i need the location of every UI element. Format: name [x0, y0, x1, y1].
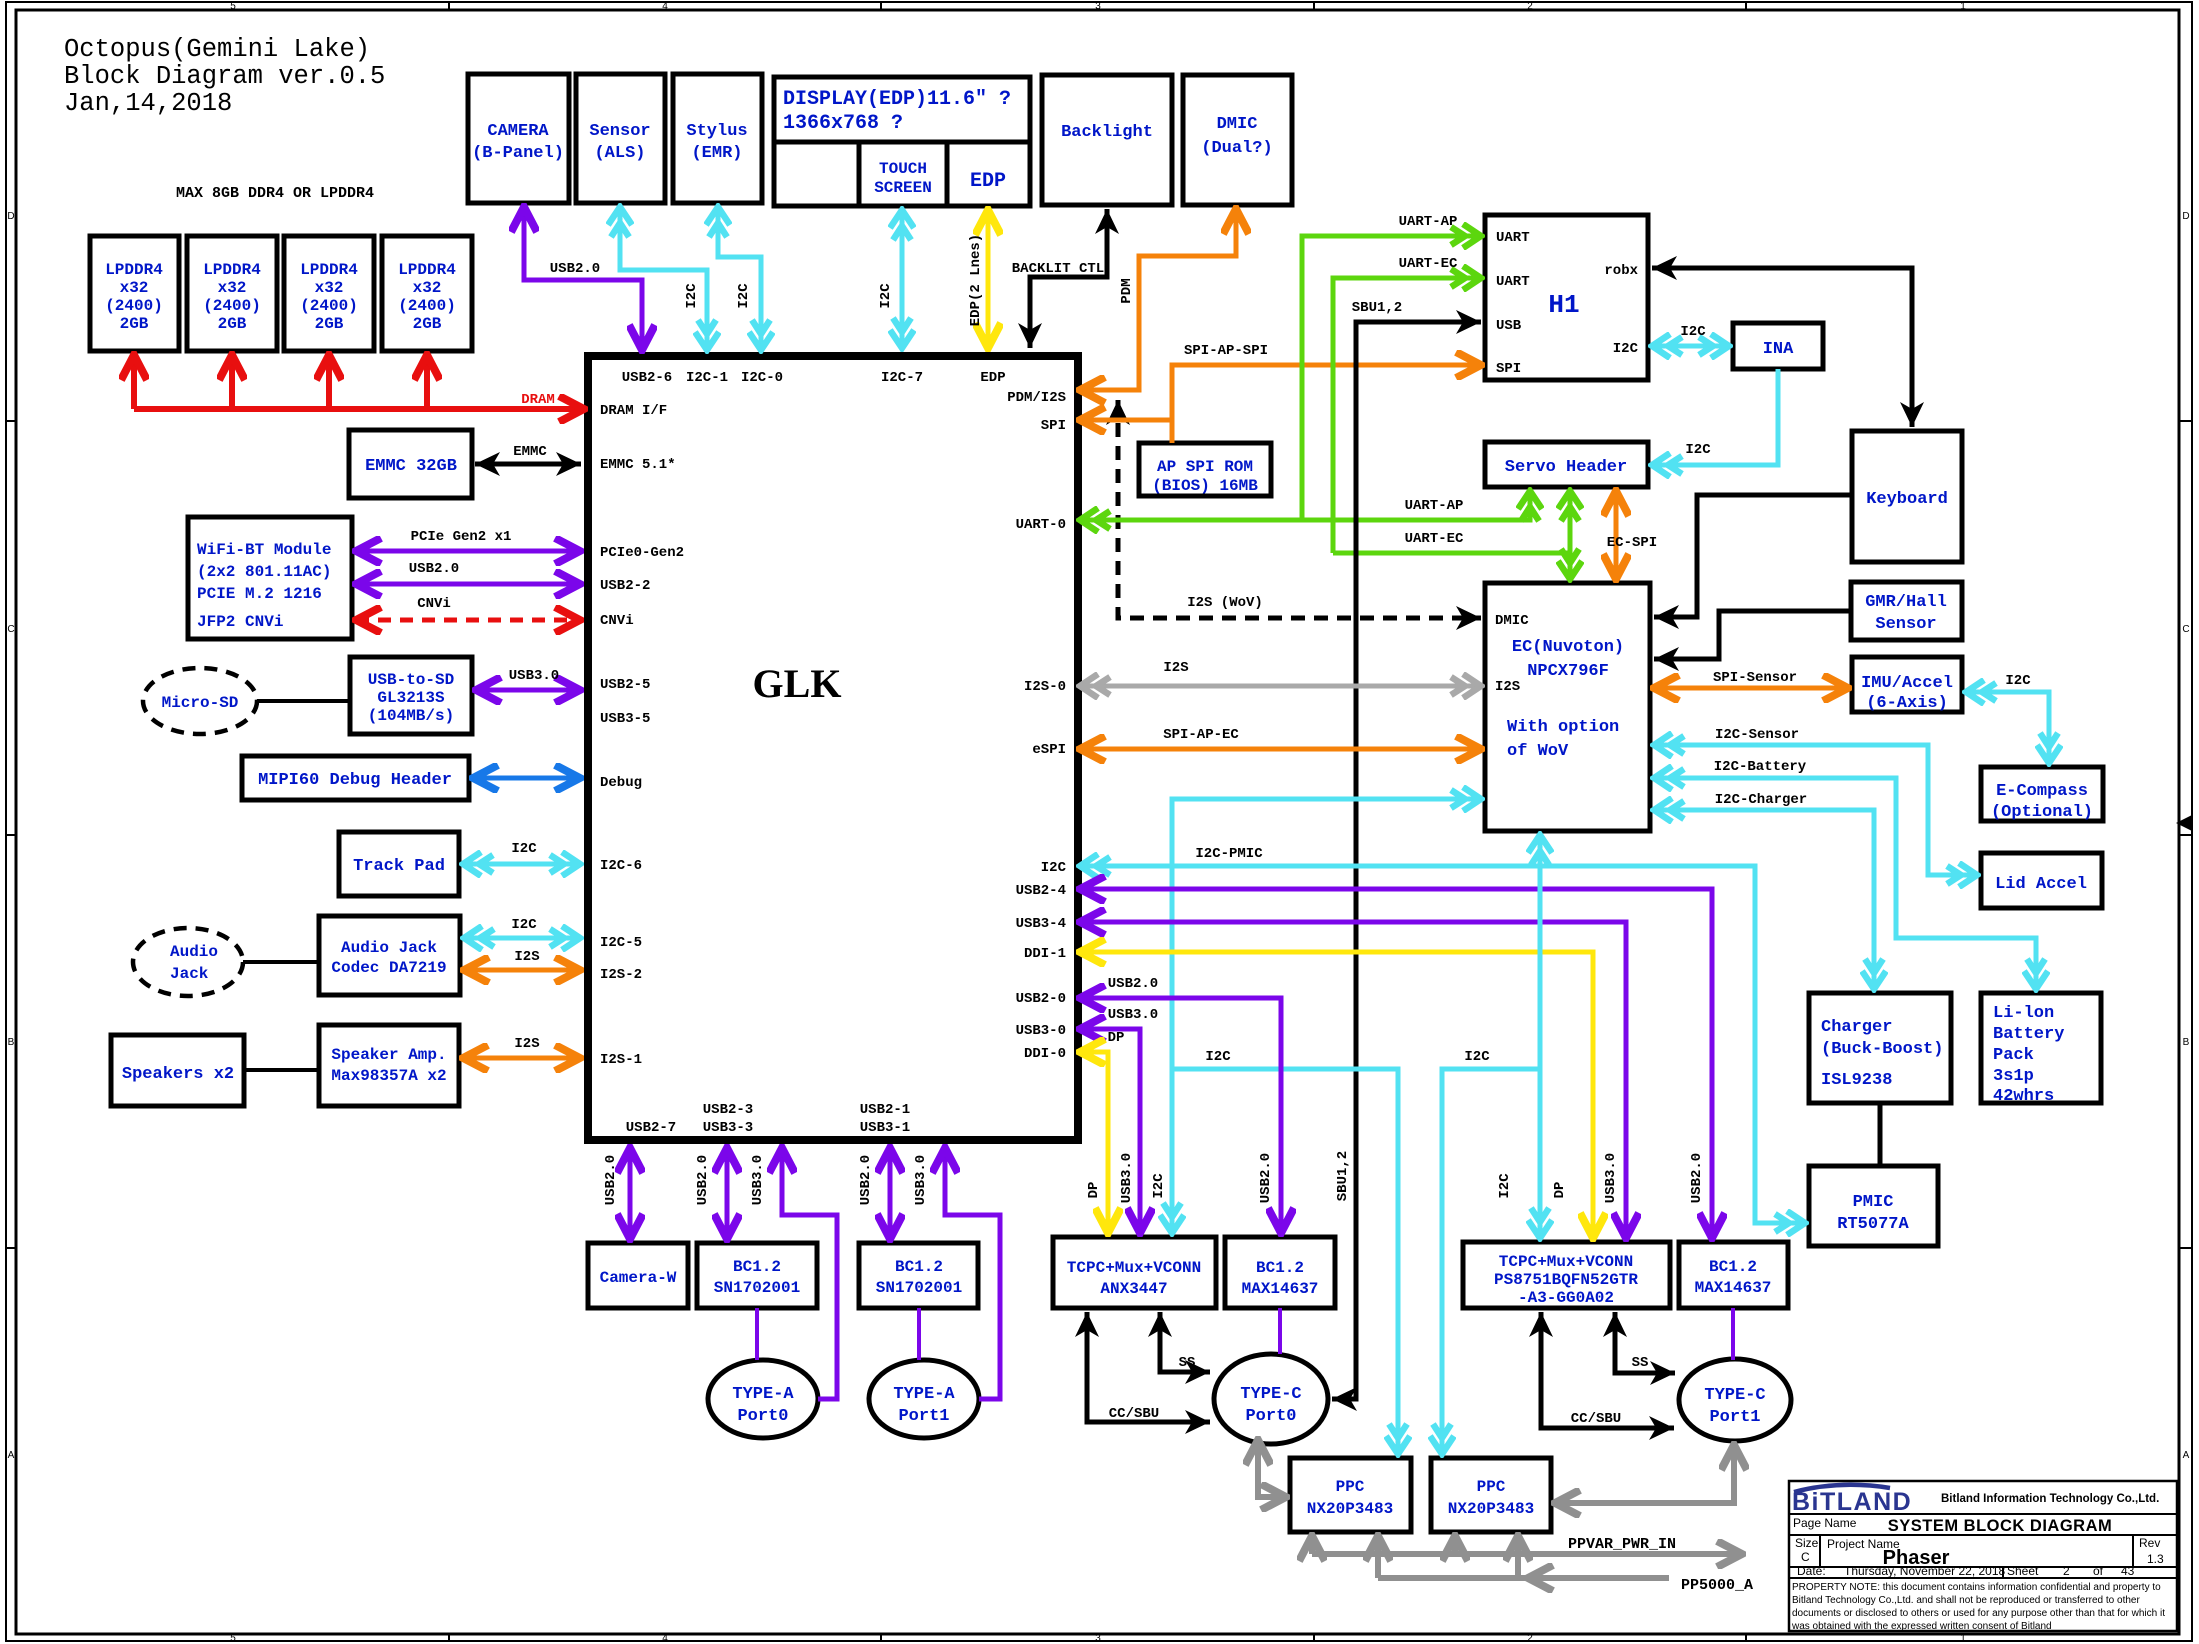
svg-text:PPVAR_PWR_IN: PPVAR_PWR_IN	[1568, 1536, 1676, 1553]
svg-text:Page Name: Page Name	[1793, 1516, 1857, 1530]
wire PDM orange	[1080, 209, 1236, 390]
wire UART-EC run to EC vertical	[1333, 551, 1570, 556]
svg-text:2GB: 2GB	[218, 315, 247, 333]
svg-text:SPI-AP-SPI: SPI-AP-SPI	[1184, 343, 1268, 359]
svg-text:1: 1	[1960, 1633, 1966, 1644]
connector Audio Jack (dashed ellipse)	[133, 928, 243, 996]
svg-text:UART: UART	[1496, 274, 1530, 290]
wire USB2-6 camera purple	[524, 207, 642, 350]
connector Micro-SD (dashed ellipse)	[143, 668, 257, 734]
wire PCIe Gen2 x1 purple	[356, 549, 580, 554]
svg-text:A: A	[8, 1450, 15, 1461]
svg-text:SBU1,2: SBU1,2	[1335, 1151, 1351, 1201]
svg-text:UART-AP: UART-AP	[1405, 498, 1464, 514]
svg-text:2GB: 2GB	[315, 315, 344, 333]
svg-text:E-Compass: E-Compass	[1996, 782, 2088, 801]
svg-text:UART-EC: UART-EC	[1399, 256, 1458, 272]
wire I2C H1-INA cyan	[1652, 344, 1729, 349]
chip H1	[1485, 215, 1648, 380]
svg-text:x32: x32	[120, 279, 149, 297]
wire Keyboard to EC black	[1654, 495, 1852, 617]
svg-text:I2C-5: I2C-5	[600, 935, 642, 951]
wire CC/SBU PS8751 to TYPE-C Port1 black	[1541, 1312, 1674, 1428]
svg-text:Micro-SD: Micro-SD	[162, 694, 239, 712]
svg-text:I2S: I2S	[1163, 660, 1188, 676]
svg-text:EDP: EDP	[980, 370, 1005, 386]
svg-text:BiTLAND: BiTLAND	[1792, 1488, 1912, 1516]
svg-text:USB2-6: USB2-6	[622, 370, 672, 386]
svg-text:I2C: I2C	[1497, 1173, 1513, 1199]
wire I2C-Sensor cyan EC to Lid Accel	[1654, 745, 1977, 875]
wire DRAM riser to LPDDR4 #4	[424, 355, 430, 409]
svg-text:DP: DP	[1086, 1182, 1102, 1199]
svg-text:(EMR): (EMR)	[691, 144, 742, 163]
block CAMERA (B-Panel)	[468, 74, 569, 203]
wire PPVAR riser to PPC#2	[1452, 1536, 1458, 1554]
svg-text:I2S (WoV): I2S (WoV)	[1187, 595, 1263, 611]
svg-text:I2S-1: I2S-1	[600, 1052, 642, 1068]
svg-text:1: 1	[1960, 1, 1966, 12]
svg-text:DRAM I/F: DRAM I/F	[600, 403, 667, 419]
svg-text:USB2-0: USB2-0	[1016, 991, 1066, 1007]
GLK pin labels right side	[1007, 390, 1066, 1062]
svg-text:x32: x32	[315, 279, 344, 297]
svg-text:I2C-Charger: I2C-Charger	[1715, 792, 1807, 808]
svg-text:(BIOS) 16MB: (BIOS) 16MB	[1152, 477, 1258, 495]
wire PP5000 riser to PPC#2	[1515, 1536, 1521, 1578]
wire EDP yellow	[986, 210, 991, 348]
svg-text:USB2.0: USB2.0	[1258, 1153, 1274, 1203]
block BC1.2 MAX14637 #1	[1225, 1237, 1335, 1308]
svg-text:of WoV: of WoV	[1507, 742, 1569, 761]
wire I2C-5 codec cyan	[464, 936, 580, 941]
svg-text:PMIC: PMIC	[1853, 1193, 1894, 1212]
wire DRAM riser to LPDDR4 #2	[229, 355, 235, 409]
svg-text:B: B	[8, 1037, 15, 1048]
svg-text:USB2.0: USB2.0	[1108, 976, 1158, 992]
svg-text:USB3-1: USB3-1	[860, 1120, 910, 1136]
svg-text:Lid Accel: Lid Accel	[1995, 875, 2087, 894]
svg-text:Port1: Port1	[1709, 1408, 1760, 1427]
svg-text:Sensor: Sensor	[1875, 615, 1936, 634]
block Backlight	[1042, 75, 1172, 205]
svg-text:PDM: PDM	[1119, 278, 1135, 303]
svg-text:2: 2	[1527, 1, 1533, 12]
wire I2C-1 sensor cyan	[620, 207, 707, 350]
svg-text:I2S: I2S	[514, 1036, 539, 1052]
svg-text:was obtained with the expresse: was obtained with the expressed written …	[1791, 1621, 2052, 1632]
svg-text:DMIC: DMIC	[1217, 115, 1258, 134]
svg-text:D: D	[7, 211, 14, 222]
svg-text:TOUCH: TOUCH	[879, 160, 927, 178]
svg-text:I2S-0: I2S-0	[1024, 679, 1066, 695]
svg-text:UART-0: UART-0	[1016, 517, 1066, 533]
svg-text:TYPE-A: TYPE-A	[893, 1385, 955, 1404]
svg-text:MAX 8GB DDR4 OR LPDDR4: MAX 8GB DDR4 OR LPDDR4	[176, 185, 374, 202]
wire I2S WoV dashed black	[1118, 400, 1481, 618]
wire SS ANX3447 to TYPE-C Port0 black	[1160, 1312, 1210, 1372]
wire SPI to H1	[1172, 365, 1481, 420]
wire I2C EC-PS8751 cyan vertical	[1538, 835, 1543, 1238]
svg-text:Block Diagram ver.0.5: Block Diagram ver.0.5	[64, 62, 385, 91]
wire I2C-PMIC cyan	[1080, 866, 1805, 1223]
svg-text:USB3-4: USB3-4	[1016, 916, 1066, 932]
svg-text:USB3.0: USB3.0	[1119, 1153, 1135, 1203]
wire I2C EC-ANX3447 cyan	[1172, 799, 1481, 1233]
connector TYPE-A Port1 (ellipse)	[869, 1360, 979, 1438]
svg-text:x32: x32	[413, 279, 442, 297]
EC Nuvoton NPCX796F	[1485, 583, 1650, 831]
svg-text:CNVi: CNVi	[417, 596, 451, 612]
svg-text:Speakers x2: Speakers x2	[122, 1065, 234, 1084]
wire EMMC black double	[475, 462, 581, 467]
svg-text:Servo Header: Servo Header	[1505, 458, 1627, 477]
svg-text:(2x2 801.11AC): (2x2 801.11AC)	[197, 563, 331, 581]
svg-text:UART-AP: UART-AP	[1399, 214, 1458, 230]
svg-text:UART: UART	[1496, 230, 1530, 246]
wire I2C-0 stylus cyan	[718, 207, 761, 350]
svg-text:SPI: SPI	[1041, 418, 1066, 434]
svg-text:USB3.0: USB3.0	[1108, 1007, 1158, 1023]
svg-text:I2C: I2C	[511, 841, 537, 857]
wire Speakers link	[244, 1068, 319, 1072]
svg-text:of: of	[2093, 1564, 2104, 1578]
svg-text:Jack: Jack	[170, 965, 209, 983]
wire SPI-Sensor orange EC to IMU	[1654, 686, 1848, 691]
svg-text:I2C: I2C	[2005, 673, 2031, 689]
svg-text:LPDDR4: LPDDR4	[300, 261, 358, 279]
wire PPVAR_PWR_IN rail gray	[1312, 1551, 1742, 1557]
svg-text:Battery: Battery	[1993, 1025, 2064, 1044]
svg-text:I2C: I2C	[1205, 1049, 1231, 1065]
svg-text:USB3.0: USB3.0	[913, 1155, 929, 1205]
svg-text:PDM/I2S: PDM/I2S	[1007, 390, 1066, 406]
block PMIC RT5077A	[1809, 1166, 1938, 1246]
svg-text:Camera-W: Camera-W	[600, 1269, 677, 1287]
wire EC-SPI orange vertical	[1614, 491, 1619, 579]
svg-text:With option: With option	[1507, 718, 1619, 737]
SoC GLK	[588, 356, 1078, 1140]
wire BC1.2#2 to TYPE-A Port1 purple	[917, 1308, 921, 1360]
svg-text:2GB: 2GB	[413, 315, 442, 333]
svg-text:I2C: I2C	[511, 917, 537, 933]
svg-text:SS: SS	[1179, 1355, 1196, 1371]
svg-text:I2S-2: I2S-2	[600, 967, 642, 983]
wire I2C-6 track pad cyan	[463, 862, 580, 867]
block Sensor (ALS)	[576, 74, 665, 203]
wire I2S gray GLK-EC	[1080, 684, 1481, 689]
svg-text:USB2-5: USB2-5	[600, 677, 650, 693]
svg-text:documents or disclosed to othe: documents or disclosed to others or used…	[1792, 1608, 2165, 1619]
block LPDDR4 x32 (2400) 2GB #2	[187, 236, 277, 351]
block PPC NX20P3483 #1	[1290, 1458, 1411, 1532]
wire UART-EC green to H1	[1333, 278, 1481, 553]
block BC1.2 MAX14637 #2	[1679, 1242, 1788, 1308]
wire USB2-7 purple to Camera-W	[628, 1148, 633, 1239]
block Track Pad	[339, 832, 459, 896]
svg-text:PP5000_A: PP5000_A	[1681, 1577, 1753, 1594]
svg-text:I2C-7: I2C-7	[881, 370, 923, 386]
svg-text:3s1p: 3s1p	[1993, 1067, 2034, 1086]
block PPC NX20P3483 #2	[1431, 1458, 1551, 1532]
svg-text:I2C-Battery: I2C-Battery	[1714, 759, 1807, 775]
svg-text:(Dual?): (Dual?)	[1201, 139, 1272, 158]
wire USB2.0 WiFi purple	[356, 582, 580, 587]
svg-text:UART-EC: UART-EC	[1405, 531, 1464, 547]
svg-text:4: 4	[662, 1, 668, 12]
svg-text:(2400): (2400)	[398, 297, 456, 315]
svg-text:Sheet: Sheet	[2007, 1564, 2039, 1578]
svg-text:Rev: Rev	[2139, 1536, 2160, 1550]
svg-text:USB3-5: USB3-5	[600, 711, 650, 727]
svg-text:I2C-0: I2C-0	[741, 370, 783, 386]
svg-text:Keyboard: Keyboard	[1866, 490, 1948, 509]
svg-text:I2C: I2C	[1680, 324, 1706, 340]
svg-text:USB2.0: USB2.0	[695, 1155, 711, 1205]
svg-text:I2C: I2C	[1464, 1049, 1490, 1065]
svg-text:LPDDR4: LPDDR4	[105, 261, 163, 279]
svg-text:EC(Nuvoton): EC(Nuvoton)	[1512, 638, 1624, 657]
svg-text:SN1702001: SN1702001	[876, 1279, 962, 1297]
svg-text:Bitland Technology Co.,Ltd. a: Bitland Technology Co.,Ltd. and shall no…	[1792, 1595, 2140, 1606]
block Audio Jack Codec DA7219	[319, 916, 460, 995]
svg-text:BC1.2: BC1.2	[733, 1258, 781, 1276]
block Li-lon Battery Pack 3s1p 42whrs	[1981, 993, 2101, 1106]
svg-text:43: 43	[2121, 1564, 2135, 1578]
block Speakers x2	[111, 1035, 244, 1106]
wire I2S-1 speaker amp orange	[463, 1056, 580, 1061]
svg-text:USB2.0: USB2.0	[603, 1155, 619, 1205]
svg-text:Audio Jack: Audio Jack	[341, 939, 437, 957]
wire USB3-1 purple to TYPE-A Port1	[945, 1148, 1000, 1399]
wire DRAM rail into GLK DRAM I/F	[134, 406, 584, 412]
svg-text:DRAM: DRAM	[521, 392, 555, 408]
block GMR/Hall Sensor	[1851, 582, 1962, 640]
svg-text:USB2-4: USB2-4	[1016, 883, 1066, 899]
svg-text:USB2.0: USB2.0	[858, 1155, 874, 1205]
svg-text:(104MB/s): (104MB/s)	[368, 707, 454, 725]
svg-text:(ALS): (ALS)	[594, 144, 645, 163]
svg-text:BACKLIT CTL: BACKLIT CTL	[1012, 261, 1104, 277]
svg-text:Audio: Audio	[170, 943, 218, 961]
svg-text:Debug: Debug	[600, 775, 642, 791]
junction arrow on PP5000 rail	[1528, 1575, 1560, 1581]
title block	[1789, 1481, 2177, 1631]
svg-text:USB2.0: USB2.0	[1689, 1153, 1705, 1203]
svg-text:NPCX796F: NPCX796F	[1527, 662, 1609, 681]
block Lid Accel	[1981, 853, 2102, 908]
svg-text:CAMERA: CAMERA	[487, 122, 549, 141]
svg-text:Max98357A x2: Max98357A x2	[331, 1067, 446, 1085]
svg-text:USB3-3: USB3-3	[703, 1120, 753, 1136]
svg-text:NX20P3483: NX20P3483	[1307, 1500, 1393, 1518]
svg-text:I2C: I2C	[736, 283, 752, 309]
svg-text:I2C: I2C	[684, 283, 700, 309]
wire SPI-AP-SPI orange: GLK branch	[1080, 418, 1172, 423]
wire DDI-1 yellow to PS8751 DP	[1080, 952, 1593, 1238]
block Keyboard	[1852, 431, 1962, 562]
wire USB3.0 card reader purple	[476, 688, 580, 693]
wire USB3-4 purple to PS8751	[1080, 922, 1626, 1238]
svg-text:MAX14637: MAX14637	[1695, 1279, 1772, 1297]
svg-text:EMMC 5.1*: EMMC 5.1*	[600, 457, 676, 473]
svg-text:(Buck-Boost): (Buck-Boost)	[1821, 1040, 1943, 1059]
svg-text:Date:: Date:	[1797, 1564, 1826, 1578]
svg-text:SN1702001: SN1702001	[714, 1279, 800, 1297]
svg-text:(2400): (2400)	[300, 297, 358, 315]
svg-text:B: B	[2183, 1037, 2190, 1048]
svg-text:EDP: EDP	[970, 170, 1006, 193]
wire Audio Jack link	[243, 960, 319, 964]
svg-text:5: 5	[230, 1633, 236, 1644]
svg-text:DDI-1: DDI-1	[1024, 946, 1066, 962]
svg-text:LPDDR4: LPDDR4	[203, 261, 261, 279]
wire Charger to PMIC black	[1878, 1103, 1883, 1166]
svg-text:(2400): (2400)	[203, 297, 261, 315]
svg-text:PPC: PPC	[1477, 1478, 1506, 1496]
svg-text:GLK: GLK	[753, 661, 842, 706]
svg-text:DP: DP	[1552, 1182, 1568, 1199]
svg-text:C: C	[1801, 1550, 1810, 1564]
svg-text:42whrs: 42whrs	[1993, 1087, 2054, 1106]
svg-text:SPI-Sensor: SPI-Sensor	[1713, 670, 1797, 686]
svg-text:2: 2	[2063, 1564, 2070, 1578]
svg-text:CNVi: CNVi	[600, 613, 634, 629]
svg-text:DMIC: DMIC	[1495, 613, 1529, 629]
wire MAX14637#1 to TYPE-C Port0 purple	[1278, 1308, 1282, 1354]
svg-text:PS8751BQFN52GTR: PS8751BQFN52GTR	[1494, 1271, 1638, 1289]
svg-text:A: A	[2183, 1450, 2190, 1461]
svg-text:2GB: 2GB	[120, 315, 149, 333]
svg-text:SBU1,2: SBU1,2	[1352, 300, 1402, 316]
svg-text:PCIE M.2 1216: PCIE M.2 1216	[197, 585, 322, 603]
svg-text:x32: x32	[218, 279, 247, 297]
wire I2C IMU to E-Compass cyan	[1966, 692, 2049, 763]
svg-text:INA: INA	[1763, 340, 1794, 359]
wire USB2-0 purple to MAX14637#1	[1080, 998, 1281, 1233]
svg-text:Bitland Information Technolo: Bitland Information Technology Co.,Ltd.	[1941, 1493, 2159, 1505]
block Stylus (EMR)	[673, 74, 762, 203]
svg-text:H1: H1	[1548, 290, 1579, 320]
wire I2C-Battery cyan EC to Li-lon	[1654, 778, 2036, 989]
block BC1.2 SN1702001 #1	[697, 1243, 817, 1308]
svg-text:WiFi-BT Module: WiFi-BT Module	[197, 541, 331, 559]
svg-text:Jan,14,2018: Jan,14,2018	[64, 89, 232, 118]
svg-text:USB2-7: USB2-7	[626, 1120, 676, 1136]
svg-text:AP SPI ROM: AP SPI ROM	[1157, 458, 1253, 476]
block TCPC+Mux+VCONN PS8751BQFN52GTR-A3-GG0A02	[1463, 1242, 1670, 1308]
svg-text:MIPI60 Debug Header: MIPI60 Debug Header	[258, 771, 452, 790]
block AP SPI ROM (BIOS) 16MB	[1139, 443, 1271, 496]
svg-text:Octopus(Gemini Lake): Octopus(Gemini Lake)	[64, 35, 370, 64]
wire I2S-2 codec orange	[464, 968, 580, 973]
wire robx black H1 to Keyboard	[1652, 268, 1912, 427]
wire USB3-0 purple to ANX3447	[1080, 1029, 1140, 1233]
wire CC/SBU ANX3447 to TYPE-C Port0 black	[1087, 1312, 1210, 1422]
svg-text:C: C	[2182, 624, 2189, 635]
svg-text:SPI-AP-EC: SPI-AP-EC	[1163, 727, 1239, 743]
wire SPI-AP-EC orange GLK-EC	[1080, 747, 1481, 752]
svg-text:D: D	[2182, 211, 2189, 222]
wire I2C-Charger cyan EC to Charger	[1654, 810, 1874, 989]
wire I2C INA to Servo Header cyan	[1652, 369, 1778, 465]
svg-text:PCIe0-Gen2: PCIe0-Gen2	[600, 545, 684, 561]
wire SS PS8751 to TYPE-C Port1 black	[1615, 1312, 1675, 1373]
svg-text:robx: robx	[1604, 263, 1638, 279]
svg-text:EDP(2 Lnes): EDP(2 Lnes)	[968, 234, 984, 326]
svg-text:I2C: I2C	[878, 283, 894, 309]
svg-text:TYPE-C: TYPE-C	[1240, 1385, 1301, 1404]
svg-text:GMR/Hall: GMR/Hall	[1865, 593, 1947, 612]
svg-text:Port1: Port1	[898, 1407, 949, 1426]
svg-text:eSPI: eSPI	[1032, 742, 1066, 758]
wire power TYPE-C Port0 to PPC#1 gray	[1258, 1440, 1286, 1497]
svg-text:1366x768 ?: 1366x768 ?	[783, 112, 903, 135]
block BC1.2 SN1702001 #2	[859, 1243, 978, 1308]
svg-text:PCIe Gen2 x1: PCIe Gen2 x1	[411, 529, 512, 545]
block LPDDR4 x32 (2400) 2GB #3	[284, 236, 374, 351]
svg-text:USB2-3: USB2-3	[703, 1102, 753, 1118]
svg-text:I2C: I2C	[1613, 341, 1639, 357]
svg-text:Thursday, November 22, 2018: Thursday, November 22, 2018	[1844, 1564, 2006, 1578]
svg-text:4: 4	[662, 1633, 668, 1644]
wire GMR/Hall to EC black	[1654, 611, 1851, 659]
svg-text:SPI: SPI	[1496, 361, 1521, 377]
svg-text:ANX3447: ANX3447	[1100, 1280, 1167, 1298]
svg-text:USB3.0: USB3.0	[750, 1155, 766, 1205]
svg-text:TYPE-A: TYPE-A	[732, 1385, 794, 1404]
svg-text:USB2-1: USB2-1	[860, 1102, 910, 1118]
svg-text:SS: SS	[1632, 1355, 1649, 1371]
wire UART-EC Servo-EC vertical green	[1568, 491, 1573, 579]
block TCPC+Mux+VCONN ANX3447	[1053, 1237, 1216, 1308]
svg-text:NX20P3483: NX20P3483	[1448, 1500, 1534, 1518]
svg-text:-A3-GG0A02: -A3-GG0A02	[1518, 1289, 1614, 1307]
wire DRAM riser to LPDDR4 #1	[131, 355, 137, 409]
svg-text:(Optional): (Optional)	[1991, 803, 2093, 822]
svg-text:Size: Size	[1795, 1536, 1819, 1550]
svg-text:3: 3	[1095, 1633, 1101, 1644]
svg-text:Charger: Charger	[1821, 1018, 1892, 1037]
wire power TYPE-C Port1 to PPC#2 gray	[1555, 1445, 1734, 1503]
svg-text:Stylus: Stylus	[686, 122, 747, 141]
wire DRAM riser to LPDDR4 #3	[326, 355, 332, 409]
wire CNVi red dashed	[356, 618, 580, 623]
connector TYPE-C Port0 (ellipse)	[1214, 1354, 1328, 1444]
wire USB2-1 purple to BC1.2#2	[888, 1148, 893, 1239]
GLK pin labels top and bottom	[622, 370, 1006, 1136]
svg-text:TCPC+Mux+VCONN: TCPC+Mux+VCONN	[1499, 1253, 1633, 1271]
wire Debug blue	[473, 776, 580, 781]
svg-text:Port0: Port0	[1245, 1407, 1296, 1426]
svg-text:I2C: I2C	[1685, 442, 1711, 458]
svg-text:DDI-0: DDI-0	[1024, 1046, 1066, 1062]
wire Micro-SD link	[257, 699, 350, 703]
connector TYPE-C Port1 (ellipse)	[1679, 1359, 1791, 1441]
block USB-to-SD GL3213S	[350, 657, 472, 734]
svg-text:CC/SBU: CC/SBU	[1571, 1411, 1621, 1427]
block MIPI60 Debug Header	[242, 756, 469, 800]
svg-text:Backlight: Backlight	[1061, 123, 1153, 142]
svg-text:USB2-2: USB2-2	[600, 578, 650, 594]
svg-text:5: 5	[230, 1, 236, 12]
svg-text:MAX14637: MAX14637	[1242, 1280, 1319, 1298]
svg-text:(6-Axis): (6-Axis)	[1866, 694, 1948, 713]
svg-text:TCPC+Mux+VCONN: TCPC+Mux+VCONN	[1067, 1259, 1201, 1277]
GLK pin labels left side	[600, 403, 684, 1068]
svg-text:EC-SPI: EC-SPI	[1607, 535, 1657, 551]
svg-text:USB3.0: USB3.0	[1603, 1153, 1619, 1203]
